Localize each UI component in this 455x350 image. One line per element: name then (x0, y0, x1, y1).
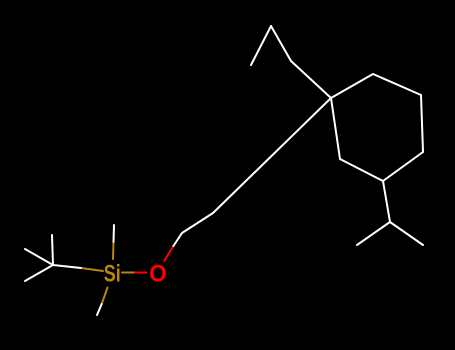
Si up methyl white (113, 225, 116, 242)
wire O-CH2 red half (164, 246, 173, 261)
tBu methyl up-left (25, 249, 53, 265)
Si-tBu bond gold (81, 268, 103, 271)
stalk below H5 (383, 181, 390, 222)
wire long diagonal V1-T (213, 98, 331, 213)
hexagon edge H6-H1 (331, 98, 340, 159)
Si down methyl white (97, 304, 102, 315)
wire CH2-V1 (182, 213, 213, 233)
stalk arm right (390, 222, 423, 245)
svg-text:Si: Si (104, 261, 121, 288)
wire tail methyl (271,26)-(251,65) (251, 26, 271, 65)
hexagon edge H2-H3 (373, 74, 421, 95)
stalk arm left (357, 222, 390, 245)
hexagon edge H1-H2 (331, 74, 373, 98)
hexagon edge H3-H4 (421, 95, 423, 152)
Si-tBu bond white (53, 265, 81, 268)
hexagon edge H5-H6 (340, 159, 383, 181)
svg-text:O: O (149, 261, 167, 288)
wire tail T-(291,61) (291, 61, 331, 98)
Si down methyl gold (102, 288, 108, 305)
wire O-CH2 white half (173, 233, 182, 246)
Si-O bond red half (135, 272, 147, 274)
Si-O bond gold half (122, 272, 135, 274)
tBu methyl down-left (25, 265, 53, 281)
hexagon edge H4-H5 (383, 152, 423, 181)
wire tail (291,61)-(271,26) (271, 26, 291, 61)
Si up methyl gold (112, 242, 115, 259)
tBu methyl up (52, 235, 53, 265)
